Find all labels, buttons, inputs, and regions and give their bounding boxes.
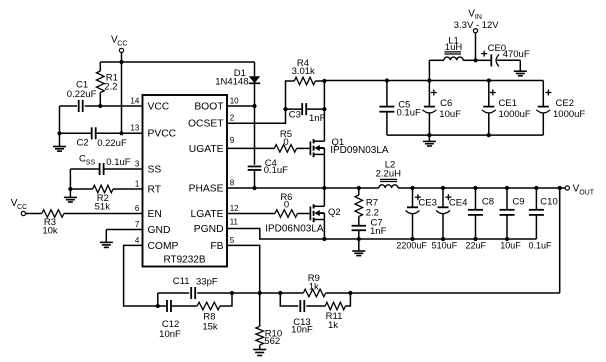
- CE1 value label: [499, 98, 531, 120]
- CE3 plus sign: [415, 194, 421, 200]
- wire left bypass rail: [59, 106, 61, 133]
- junction bottom rail / CE1: [487, 133, 491, 137]
- svg-text:6: 6: [135, 204, 140, 213]
- svg-text:1nF: 1nF: [370, 226, 387, 237]
- capacitor C10 0.1uF: [529, 188, 544, 239]
- junction R4 / VIN rail: [322, 79, 326, 83]
- wire left rail to ground: [59, 133, 61, 146]
- R11 value label: [326, 311, 343, 331]
- C11 value label: [173, 276, 218, 288]
- capacitor C3 1nF: [286, 103, 325, 115]
- resistor R3 10k: [26, 210, 143, 218]
- capacitor C11 33pF: [191, 287, 195, 299]
- CSS value label: [79, 154, 131, 168]
- capacitor C13 10nF: [280, 293, 304, 312]
- R9 value label: [308, 273, 320, 292]
- capacitor CSS 0.1uF: [100, 163, 104, 175]
- CE0 plus sign: [481, 51, 487, 57]
- C7 value label: [370, 218, 387, 238]
- wire compensation left vertical: [157, 293, 159, 306]
- ground (bypass caps): [53, 147, 66, 152]
- wire D1 cathode down to C4: [254, 83, 256, 164]
- CE2 value label: [553, 98, 585, 120]
- CE2 plus sign: [545, 90, 551, 96]
- C13 value label: [291, 317, 313, 336]
- resistor R8 15k: [171, 293, 232, 310]
- C1 value label: [67, 80, 97, 100]
- C3 value label: [289, 110, 326, 124]
- CE0 value label: [488, 43, 530, 60]
- wire VCC vertical rail to PVCC: [121, 62, 123, 133]
- junction Q2 source / PGND rail: [322, 237, 326, 241]
- svg-text:15k: 15k: [202, 322, 218, 333]
- wire IC pin4 COMP down-left: [124, 245, 158, 306]
- svg-text:UGATE: UGATE: [189, 144, 224, 155]
- node VOUT terminal: [565, 186, 569, 190]
- svg-text:14: 14: [130, 96, 139, 105]
- junction VCC rail / pin13 wire: [119, 131, 123, 135]
- resistor R2 51k: [70, 185, 142, 193]
- node VCC terminal (top): [119, 48, 123, 52]
- svg-text:3.3V - 12V: 3.3V - 12V: [454, 20, 500, 31]
- capacitor CE1 1000uF: [482, 81, 496, 136]
- svg-text:CE1: CE1: [499, 98, 517, 109]
- wire C1 to IC pin 14: [85, 105, 143, 107]
- wire IC pin10 BOOT: [227, 105, 255, 107]
- junction PHASE / R7 snubber: [357, 186, 361, 190]
- R4 value label: [292, 58, 315, 77]
- svg-text:IPD09N03LA: IPD09N03LA: [330, 145, 389, 156]
- Q1 label: [330, 137, 389, 156]
- capacitor CE2 1000uF: [536, 81, 550, 136]
- C10 name label: [540, 197, 557, 208]
- wire CSS to IC pin 3: [104, 168, 143, 170]
- C6 plus sign: [431, 90, 437, 96]
- U1 pin number labels: [130, 96, 239, 244]
- svg-text:2200uF: 2200uF: [396, 241, 427, 251]
- svg-text:COMP: COMP: [148, 241, 179, 252]
- L2 value label: [376, 160, 401, 180]
- R3 value label: [42, 217, 58, 237]
- svg-text:11: 11: [230, 217, 239, 226]
- C8 value label: [466, 241, 487, 251]
- wire pin14 left segment: [60, 105, 78, 107]
- junction PGND rail / C8: [473, 237, 477, 241]
- svg-text:CC: CC: [117, 40, 127, 47]
- junction C3 / Q1 drain line: [322, 107, 326, 111]
- CE4 plus sign: [445, 194, 451, 200]
- svg-text:1000uF: 1000uF: [499, 109, 531, 120]
- svg-text:PHASE: PHASE: [189, 183, 224, 194]
- capacitor C7 1nF (snubber): [352, 226, 367, 231]
- VOUT label: [573, 184, 595, 197]
- wire C11 branch left: [158, 292, 189, 294]
- VCC label (left): [11, 198, 27, 211]
- wire IC pin11 PGND to rail: [227, 229, 536, 240]
- op-amp U1 PWM controller RT9232B box: [143, 95, 228, 267]
- svg-text:OUT: OUT: [579, 190, 595, 197]
- wire Q1 drain to VIN rail: [323, 81, 325, 141]
- junction OCSET / R4 / C3: [283, 107, 287, 111]
- svg-text:1000uF: 1000uF: [553, 109, 585, 120]
- R6 value label: [280, 192, 292, 211]
- wire VIN rail: [324, 80, 543, 82]
- svg-text:2: 2: [230, 114, 235, 123]
- svg-text:BOOT: BOOT: [194, 101, 224, 112]
- node VCC terminal (left): [21, 211, 25, 215]
- svg-text:CE3: CE3: [418, 197, 436, 208]
- svg-text:10uF: 10uF: [439, 109, 461, 120]
- ground (CE0): [514, 60, 527, 76]
- svg-text:Q2: Q2: [328, 207, 341, 218]
- svg-text:470uF: 470uF: [503, 49, 530, 60]
- resistor R7 2.2: [355, 188, 363, 226]
- svg-text:C11: C11: [173, 276, 190, 287]
- wire Q2 source to PGND rail: [323, 220, 325, 240]
- junction VIN / L1 / CE0: [473, 58, 477, 62]
- resistor R6 0 (gate): [227, 210, 310, 218]
- node VIN terminal: [473, 29, 477, 33]
- svg-text:0: 0: [284, 200, 289, 211]
- C9 value label: [500, 241, 521, 251]
- junction R1 bottom / pin14 wire: [98, 104, 102, 108]
- C2 value label: [77, 138, 127, 149]
- svg-text:0.1uF: 0.1uF: [397, 108, 421, 119]
- C8 name label: [482, 197, 494, 208]
- inductor L2 2.2uH: [379, 179, 398, 188]
- junction BOOT / D1 / C4: [252, 104, 256, 108]
- svg-text:51k: 51k: [95, 201, 111, 212]
- wire C7 to PGND rail: [358, 230, 360, 239]
- svg-text:562: 562: [264, 336, 280, 347]
- inductor L1 1uH: [429, 52, 475, 81]
- junction C7 / PGND rail: [357, 237, 361, 241]
- svg-text:8: 8: [230, 178, 235, 187]
- R2 value label: [95, 193, 111, 212]
- wire input caps bottom rail: [387, 134, 543, 136]
- L1 value label: [445, 36, 463, 53]
- resistor R1 2.2: [97, 62, 105, 106]
- CE4 value label: [432, 241, 458, 251]
- junction VIN rail / CE1: [487, 78, 491, 82]
- svg-text:EN: EN: [148, 209, 162, 220]
- svg-text:5: 5: [230, 236, 235, 245]
- svg-text:1k: 1k: [328, 320, 338, 331]
- R5 value label: [280, 129, 292, 148]
- svg-text:LGATE: LGATE: [191, 209, 224, 220]
- junction VOUT rail / CE4: [441, 186, 445, 190]
- svg-text:1N4148: 1N4148: [215, 76, 248, 87]
- svg-text:12: 12: [230, 204, 239, 213]
- junction PGND rail / CE3: [410, 237, 414, 241]
- junction VOUT rail / C8: [473, 186, 477, 190]
- capacitor C8 22uF: [468, 188, 483, 239]
- R7 value label: [366, 197, 379, 218]
- svg-text:9: 9: [230, 136, 235, 145]
- Q2 label: [265, 207, 340, 234]
- VCC label (top): [111, 35, 127, 48]
- junction FB / feedback divider: [258, 291, 262, 295]
- junction C13 branch left: [278, 291, 282, 295]
- junction R9 / R11 branch: [348, 291, 352, 295]
- wire CSS down to RT node: [69, 169, 71, 189]
- svg-text:2.2: 2.2: [104, 82, 117, 93]
- resistor R9 1k: [303, 289, 325, 297]
- svg-text:0.22uF: 0.22uF: [67, 89, 97, 100]
- junction bottom rail / C6 / ground: [427, 133, 431, 137]
- junction VOUT rail / CE3: [410, 186, 414, 190]
- ground (R10): [253, 350, 266, 356]
- svg-text:C3: C3: [289, 110, 301, 121]
- wire C2 to IC pin 13: [96, 132, 143, 134]
- capacitor C4 0.1uF (bootstrap): [248, 166, 262, 170]
- capacitor C2 0.22uF: [92, 127, 96, 139]
- wire pin3 left segment: [70, 168, 99, 170]
- VIN label: [454, 8, 500, 30]
- svg-text:1uH: 1uH: [445, 42, 463, 53]
- capacitor C9 10uF: [500, 188, 515, 239]
- C10 value label: [528, 241, 552, 251]
- svg-text:10: 10: [230, 96, 239, 105]
- wire pin13 left segment: [60, 132, 92, 134]
- wire C11 branch right: [197, 292, 232, 294]
- junction left rail / pin13 wire: [57, 131, 61, 135]
- capacitor CE0 470uF: [476, 54, 521, 66]
- resistor R5 0 (gate): [227, 145, 310, 153]
- diode D1 1N4148: [249, 76, 260, 83]
- transistor Q2 IPD06N03LA: [310, 204, 324, 222]
- svg-text:0.1uF: 0.1uF: [106, 157, 130, 168]
- junction VOUT rail / C9: [505, 186, 509, 190]
- wire L2 to VOUT terminal: [398, 187, 565, 189]
- C6 value label: [439, 98, 461, 120]
- junction PGND rail / C9: [505, 237, 509, 241]
- transistor Q1 IPD09N03LA: [310, 139, 324, 157]
- junction VOUT riser: [558, 186, 562, 190]
- svg-text:1nF: 1nF: [309, 113, 326, 124]
- wire PHASE line to L2: [227, 187, 379, 189]
- wire IC pin7 to ground: [106, 229, 142, 231]
- svg-text:IPD06N03LA: IPD06N03LA: [265, 223, 324, 234]
- wire feedback node run: [232, 292, 303, 294]
- junction VIN rail / C6 / L1: [427, 78, 431, 82]
- R1 value label: [104, 72, 118, 92]
- wire IC pin5 FB down: [227, 245, 260, 293]
- svg-text:C2: C2: [77, 138, 89, 149]
- wire top VCC rail: [100, 61, 254, 63]
- svg-text:C6: C6: [440, 98, 452, 109]
- svg-text:4: 4: [135, 236, 140, 245]
- svg-text:10nF: 10nF: [291, 324, 313, 335]
- junction CSS / R2 / ground: [68, 187, 72, 191]
- svg-text:C10: C10: [540, 197, 557, 208]
- U1 pin name labels and part number RT9232B: [148, 101, 225, 265]
- svg-text:0: 0: [283, 137, 288, 148]
- capacitor CE3 2200uF: [406, 188, 420, 239]
- svg-text:CC: CC: [17, 204, 27, 211]
- svg-text:GND: GND: [148, 225, 171, 236]
- svg-text:RT9232B: RT9232B: [163, 255, 205, 266]
- svg-text:3.01k: 3.01k: [292, 66, 315, 77]
- svg-text:510uF: 510uF: [432, 241, 458, 251]
- ground (pin 7 GND): [100, 230, 113, 248]
- junction VOUT rail / C10: [534, 186, 538, 190]
- C9 name label: [512, 197, 524, 208]
- svg-text:OCSET: OCSET: [188, 119, 224, 130]
- svg-text:10nF: 10nF: [159, 329, 181, 340]
- svg-text:10uF: 10uF: [500, 241, 521, 251]
- junction VIN rail / C5: [385, 78, 389, 82]
- C5 value label: [397, 99, 421, 118]
- wire IC pin2 OCSET: [227, 109, 286, 123]
- svg-text:SS: SS: [148, 164, 162, 175]
- junction COMP / compensation network: [156, 304, 160, 308]
- svg-text:FB: FB: [210, 241, 223, 252]
- C4 value label: [264, 158, 288, 176]
- ground (soft-start): [64, 189, 77, 202]
- svg-text:33pF: 33pF: [196, 277, 218, 288]
- svg-text:RT: RT: [148, 184, 162, 195]
- svg-text:SS: SS: [86, 159, 96, 166]
- CE3 name label: [418, 197, 436, 208]
- svg-text:1: 1: [135, 179, 140, 188]
- svg-text:0.1uF: 0.1uF: [264, 165, 288, 176]
- wire C4 to PHASE: [254, 170, 256, 188]
- wire R9 to VOUT riser: [326, 292, 560, 294]
- wire Q2 drain to PHASE: [323, 188, 325, 206]
- svg-text:PVCC: PVCC: [148, 129, 177, 140]
- svg-text:PGND: PGND: [194, 224, 224, 235]
- CE1 plus sign: [490, 90, 496, 96]
- svg-text:VCC: VCC: [148, 101, 170, 112]
- wire Q1 source to PHASE: [323, 154, 325, 188]
- R8 value label: [202, 312, 218, 333]
- wire top rail to D1 anode: [254, 62, 256, 76]
- svg-text:0.22uF: 0.22uF: [97, 138, 127, 149]
- D1 label: [215, 68, 248, 88]
- junction C4 / PHASE line: [252, 186, 256, 190]
- capacitor CE4 510uF: [436, 188, 450, 239]
- svg-text:3: 3: [135, 159, 140, 168]
- capacitor C12 10nF: [158, 300, 171, 312]
- svg-text:10k: 10k: [42, 226, 58, 237]
- svg-text:7: 7: [135, 220, 140, 229]
- ground (input caps): [423, 135, 436, 146]
- svg-text:22uF: 22uF: [466, 241, 487, 251]
- resistor R11 1k: [306, 293, 350, 310]
- resistor R10 562: [256, 293, 264, 349]
- junction C11 / R8 branch: [230, 291, 234, 295]
- junction VCC rail / terminal: [119, 60, 123, 64]
- wire VIN terminal down: [475, 33, 477, 60]
- svg-text:2.2uH: 2.2uH: [376, 169, 401, 180]
- resistor R4 3.01k: [286, 77, 325, 109]
- svg-text:0.1uF: 0.1uF: [528, 241, 552, 251]
- wire feedback riser to VOUT: [559, 188, 561, 293]
- CE3 value label: [396, 241, 427, 251]
- capacitor C5 0.1uF: [379, 81, 394, 136]
- C12 value label: [159, 319, 181, 340]
- svg-text:C8: C8: [482, 197, 494, 208]
- ground (power ground): [352, 239, 365, 256]
- CE4 name label: [449, 197, 467, 208]
- capacitor C6 10uF: [422, 81, 436, 136]
- wire VCC terminal to top rail: [121, 53, 123, 62]
- svg-text:13: 13: [130, 124, 139, 133]
- svg-text:CE2: CE2: [556, 98, 574, 109]
- svg-text:1k: 1k: [309, 281, 319, 292]
- svg-text:CE4: CE4: [449, 197, 467, 208]
- junction PGND rail / CE4: [441, 237, 445, 241]
- capacitor C1 0.22uF: [79, 100, 83, 112]
- junction Q1 source / PHASE line: [322, 186, 326, 190]
- R10 value label: [264, 328, 282, 347]
- svg-text:C9: C9: [512, 197, 524, 208]
